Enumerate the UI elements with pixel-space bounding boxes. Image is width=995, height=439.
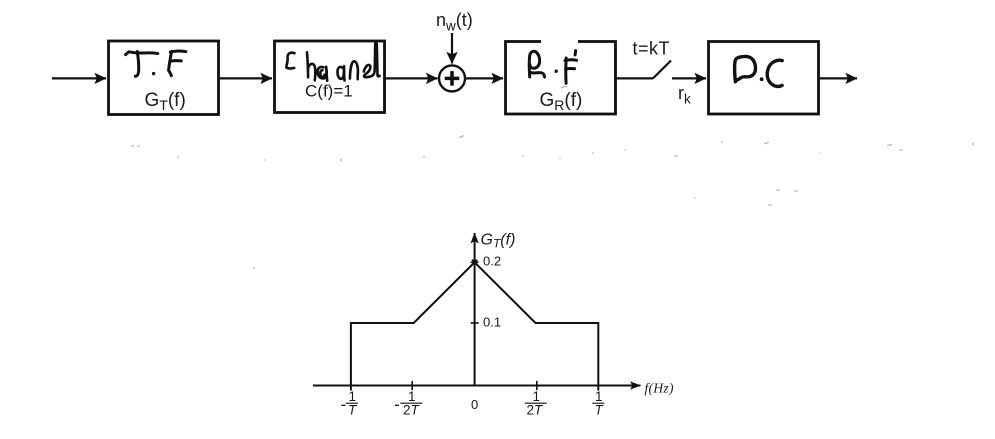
svg-text:GT(f): GT(f) <box>481 232 516 251</box>
svg-text:0: 0 <box>471 397 478 412</box>
svg-text:t=kT: t=kT <box>633 39 671 59</box>
svg-text:2T: 2T <box>527 403 545 418</box>
svg-text:GT(f): GT(f) <box>145 90 186 113</box>
svg-text:GR(f): GR(f) <box>540 90 583 113</box>
svg-text:C(f)=1: C(f)=1 <box>305 82 353 101</box>
svg-text:T: T <box>348 403 358 418</box>
svg-text:0.1: 0.1 <box>483 315 501 330</box>
svg-text:nw(t): nw(t) <box>436 10 473 34</box>
svg-text:rk: rk <box>678 83 691 107</box>
svg-text:T: T <box>595 403 605 418</box>
svg-text:f(Hz): f(Hz) <box>645 381 674 396</box>
svg-text:0.2: 0.2 <box>483 254 501 269</box>
svg-text:2T: 2T <box>403 403 421 418</box>
